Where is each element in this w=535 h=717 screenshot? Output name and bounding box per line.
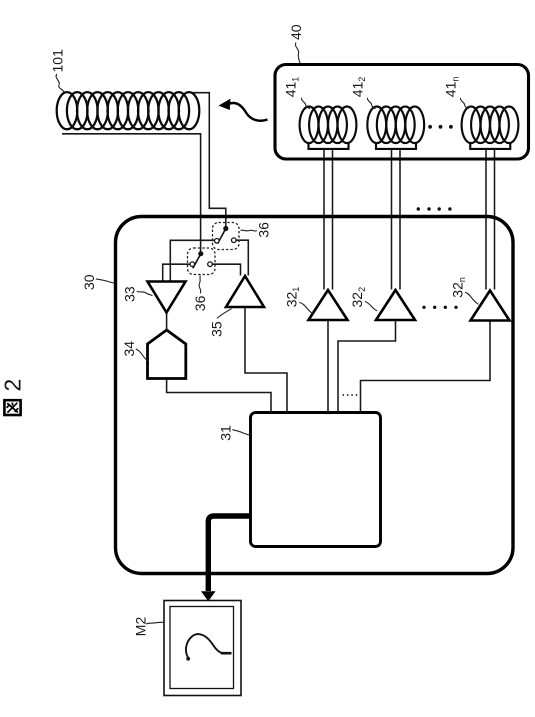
svg-text:33: 33 [121, 286, 137, 302]
svg-text:35: 35 [209, 321, 225, 337]
svg-text:34: 34 [121, 341, 137, 357]
svg-text:36: 36 [256, 222, 272, 238]
svg-text:36: 36 [192, 295, 208, 311]
svg-text:31: 31 [218, 425, 234, 441]
svg-text:30: 30 [81, 274, 97, 290]
svg-text:2: 2 [0, 379, 26, 392]
svg-text:40: 40 [288, 24, 304, 40]
svg-text:M2: M2 [133, 617, 149, 637]
svg-text:101: 101 [50, 49, 66, 73]
